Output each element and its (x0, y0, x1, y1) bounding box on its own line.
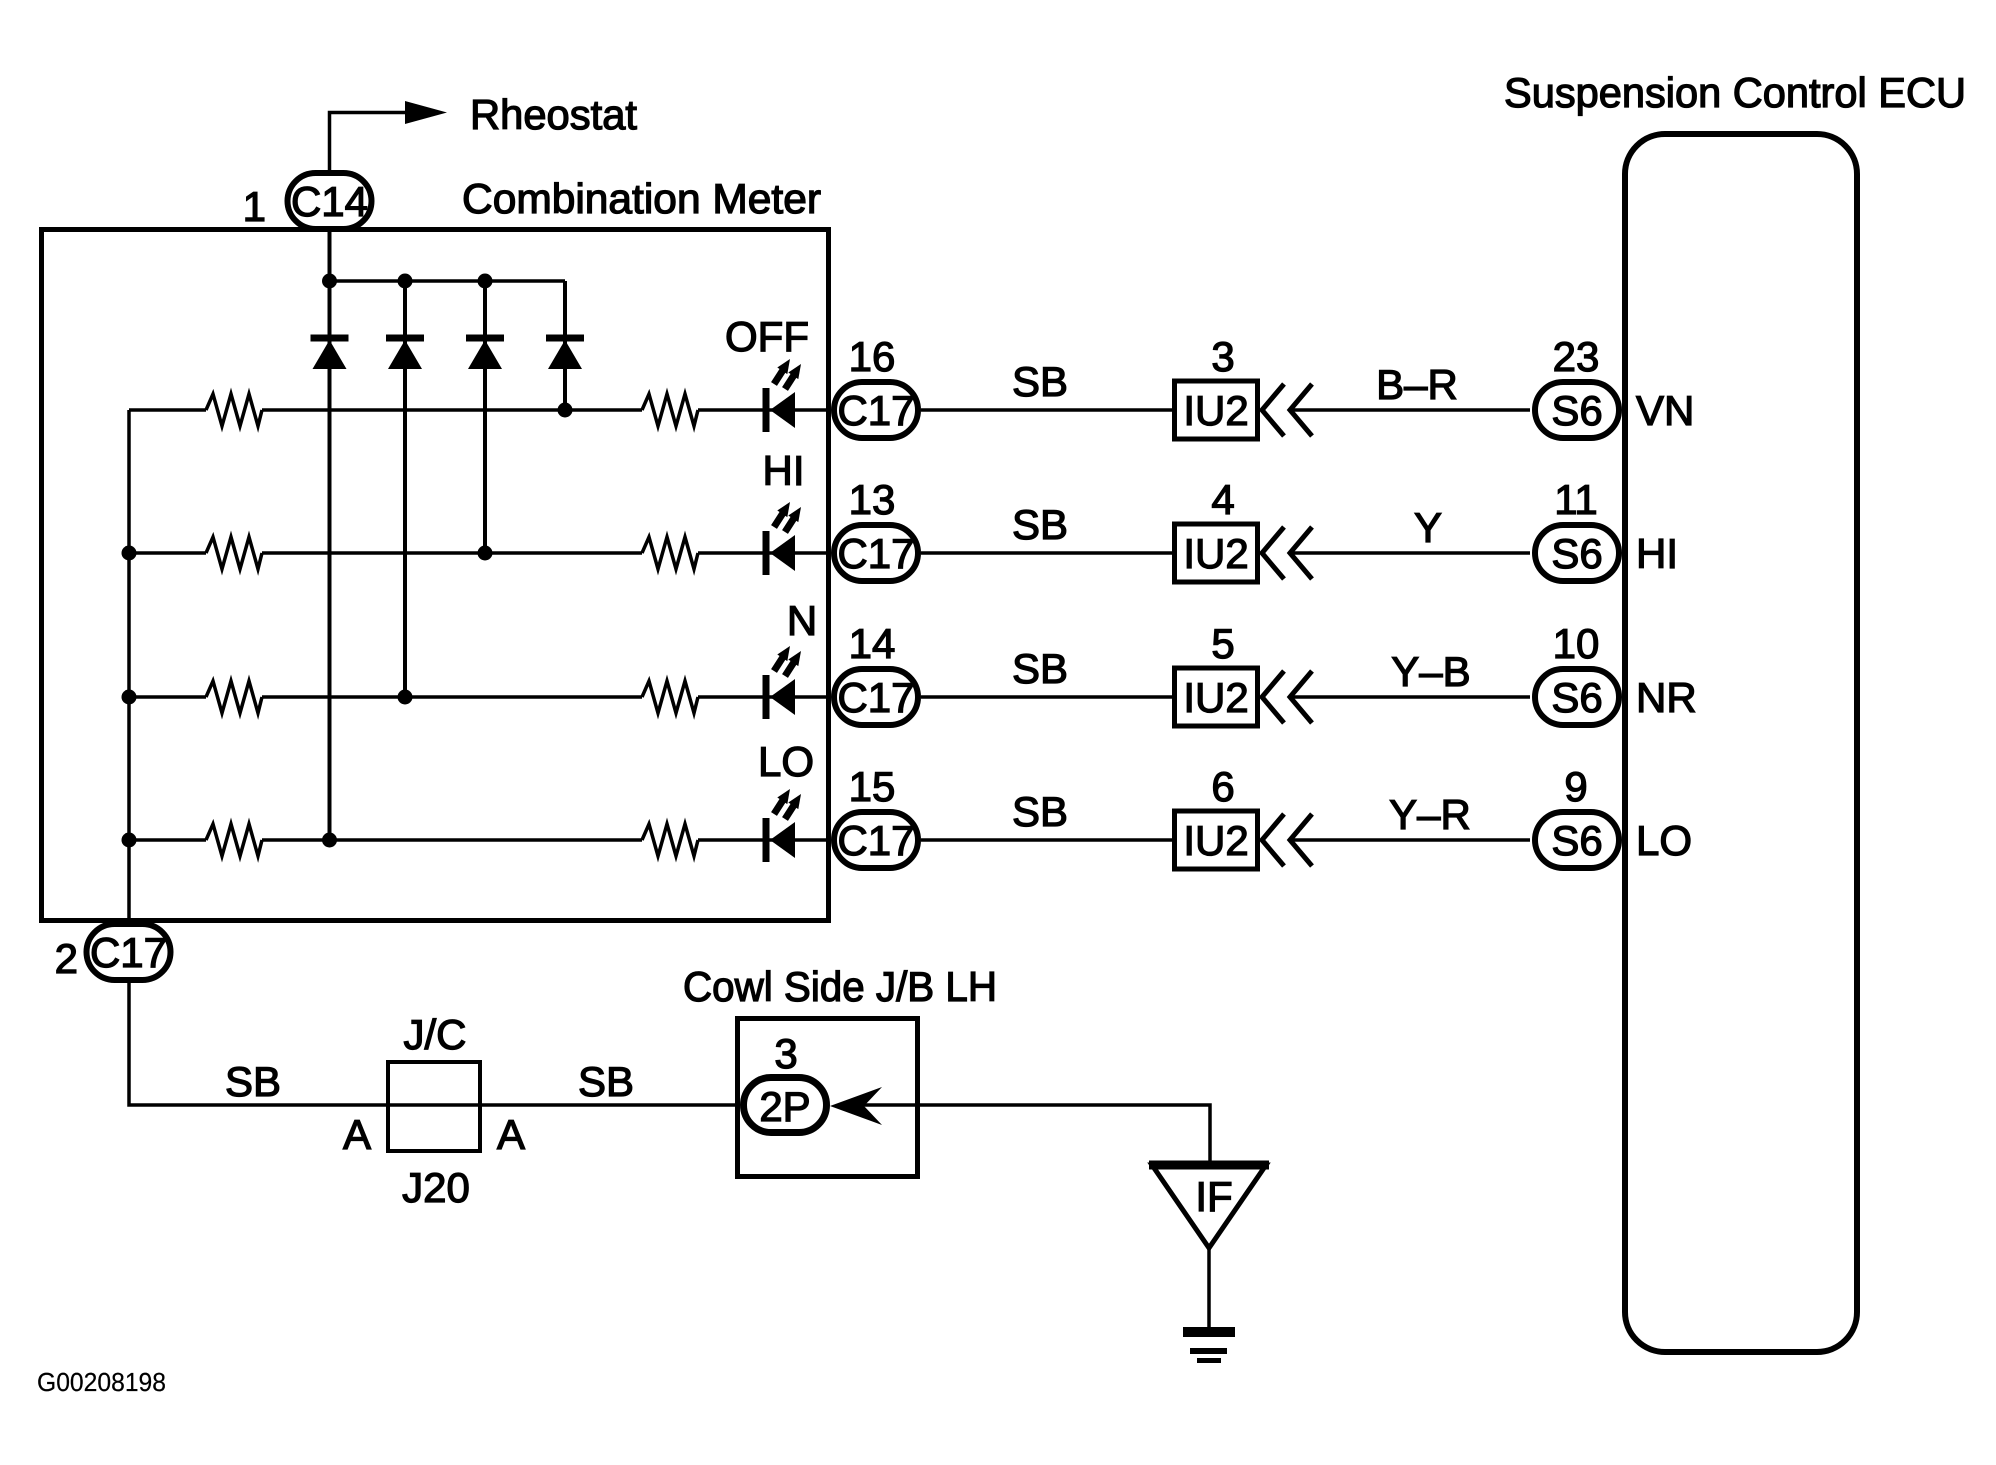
resistor HI-1 (206, 537, 262, 569)
wire C17 to IU2 row4 (921, 838, 1172, 842)
connector 2P (744, 1078, 827, 1133)
combination meter box (42, 230, 829, 921)
wire col3 (483, 281, 487, 553)
wire from C17-2 down and right (129, 983, 735, 1105)
resistor OFF-1 (206, 394, 262, 426)
svg-text:Suspension Control ECU: Suspension Control ECU (1504, 69, 1966, 116)
wire 2P to ground drop (860, 1105, 1210, 1165)
svg-text:C17: C17 (90, 929, 167, 976)
svg-text:2: 2 (55, 935, 78, 982)
svg-text:SB: SB (1012, 788, 1068, 835)
LED N (763, 646, 802, 719)
connector chevrons row3 (1262, 671, 1312, 723)
LED HI (763, 502, 802, 575)
wire N row mid (262, 695, 642, 699)
svg-text:HI: HI (763, 447, 805, 494)
connector S6 pin 10 (1535, 669, 1619, 725)
wire C17 to IU2 row1 (921, 408, 1172, 412)
svg-text:IU2: IU2 (1183, 530, 1248, 577)
svg-text:13: 13 (849, 476, 896, 523)
node col3 HI row (478, 546, 493, 561)
wire LO row left (129, 838, 206, 842)
wire LO row right (698, 838, 831, 842)
svg-text:C17: C17 (837, 387, 914, 434)
svg-text:J/C: J/C (404, 1011, 467, 1058)
svg-text:3: 3 (1211, 333, 1234, 380)
svg-text:Y–B: Y–B (1391, 648, 1470, 695)
svg-text:LO: LO (1636, 817, 1692, 864)
ground triangle IF (1152, 1165, 1266, 1248)
connector chevrons row4 (1262, 814, 1312, 866)
wire IF to ground (1207, 1248, 1211, 1329)
svg-text:9: 9 (1564, 763, 1587, 810)
wire OFF row left (129, 408, 206, 412)
connector S6 pin 23 (1535, 382, 1619, 438)
node col1 LO row (322, 833, 337, 848)
wire N row left (129, 695, 206, 699)
svg-text:IU2: IU2 (1183, 387, 1248, 434)
svg-text:J20: J20 (402, 1164, 470, 1211)
svg-text:S6: S6 (1551, 674, 1602, 721)
wire IU2 to S6 row3 (1292, 695, 1530, 699)
connector C14 (288, 173, 372, 229)
wire LO row mid (262, 838, 642, 842)
junction connector IU2 pin 5 (1175, 668, 1258, 726)
wire OFF row mid (262, 408, 642, 412)
svg-text:C17: C17 (837, 674, 914, 721)
svg-text:4: 4 (1211, 476, 1234, 523)
diode D2 (386, 335, 424, 370)
node bus col2 (398, 274, 413, 289)
LED LO (763, 789, 802, 862)
junction connector IU2 pin 6 (1175, 811, 1258, 869)
wire diode top bus (330, 279, 566, 283)
ground symbol (1183, 1327, 1235, 1363)
svg-text:C17: C17 (837, 817, 914, 864)
junction connector IU2 pin 3 (1175, 381, 1258, 439)
svg-text:SB: SB (225, 1058, 281, 1105)
wire OFF row right (698, 408, 831, 412)
wire IU2 to S6 row1 (1292, 408, 1530, 412)
svg-text:Combination Meter: Combination Meter (462, 175, 821, 222)
svg-text:10: 10 (1553, 620, 1600, 667)
connector C17 pin 14 (834, 669, 918, 725)
svg-text:1: 1 (243, 183, 266, 230)
node left bus LO (122, 833, 137, 848)
node left bus N (122, 690, 137, 705)
svg-text:14: 14 (849, 620, 896, 667)
node bus col3 (478, 274, 493, 289)
wire N row right (698, 695, 831, 699)
wire HI row left (129, 551, 206, 555)
svg-text:IF: IF (1195, 1173, 1232, 1220)
svg-text:A: A (343, 1111, 371, 1158)
svg-text:2P: 2P (759, 1083, 810, 1130)
wire IU2 to S6 row2 (1292, 551, 1530, 555)
wire col4 (563, 281, 567, 410)
cowl side J/B box (738, 1019, 918, 1177)
svg-text:11: 11 (1554, 476, 1598, 523)
svg-text:Y: Y (1414, 504, 1442, 551)
svg-text:NR: NR (1636, 674, 1697, 721)
junction connector IU2 pin 4 (1175, 524, 1258, 582)
wire IU2 to S6 row4 (1292, 838, 1530, 842)
connector C17 pin 13 (834, 525, 918, 581)
svg-text:IU2: IU2 (1183, 674, 1248, 721)
svg-text:VN: VN (1636, 387, 1694, 434)
svg-text:IU2: IU2 (1183, 817, 1248, 864)
connector chevrons row1 (1262, 384, 1312, 436)
resistor LO-2 (642, 824, 698, 856)
wire C14 to diode bus and down col1 (328, 232, 332, 840)
diode D3 (466, 335, 504, 370)
svg-text:Y–R: Y–R (1389, 791, 1471, 838)
wire C17 to IU2 row2 (921, 551, 1172, 555)
node bus col1 (322, 274, 337, 289)
diode D1 (311, 335, 349, 370)
svg-text:S6: S6 (1551, 817, 1602, 864)
node col2 N row (398, 690, 413, 705)
svg-text:N: N (787, 597, 817, 644)
svg-text:LO: LO (758, 738, 814, 785)
svg-text:23: 23 (1553, 333, 1600, 380)
wire left bus (127, 410, 131, 921)
wire HI row mid (262, 551, 642, 555)
male connector arrow (830, 1087, 882, 1125)
svg-text:SB: SB (1012, 358, 1068, 405)
resistor N-2 (642, 681, 698, 713)
svg-text:Cowl Side J/B LH: Cowl Side J/B LH (683, 963, 997, 1010)
diode D4 (546, 335, 584, 370)
svg-text:SB: SB (578, 1058, 634, 1105)
arrowhead to Rheostat (405, 101, 447, 124)
svg-text:15: 15 (849, 763, 896, 810)
wire rheostat feed (330, 113, 408, 171)
connector S6 pin 9 (1535, 812, 1619, 868)
svg-text:G00208198: G00208198 (37, 1367, 166, 1397)
svg-text:C17: C17 (837, 530, 914, 577)
LED OFF (763, 359, 802, 432)
svg-text:SB: SB (1012, 501, 1068, 548)
node col4 OFF row (558, 403, 573, 418)
svg-text:5: 5 (1211, 620, 1234, 667)
connector chevrons row2 (1262, 527, 1312, 579)
svg-text:16: 16 (849, 333, 896, 380)
svg-text:B–R: B–R (1376, 361, 1458, 408)
svg-text:OFF: OFF (725, 313, 809, 360)
wire HI row right (698, 551, 831, 555)
svg-text:SB: SB (1012, 645, 1068, 692)
node left bus HI (122, 546, 137, 561)
svg-text:6: 6 (1211, 763, 1234, 810)
resistor LO-1 (206, 824, 262, 856)
svg-text:C14: C14 (291, 178, 368, 225)
svg-text:A: A (497, 1111, 525, 1158)
svg-text:HI: HI (1636, 530, 1678, 577)
resistor HI-2 (642, 537, 698, 569)
resistor N-1 (206, 681, 262, 713)
connector C17 pin 15 (834, 812, 918, 868)
suspension control ECU box (1625, 134, 1857, 1352)
svg-text:Rheostat: Rheostat (470, 91, 637, 138)
resistor OFF-2 (642, 394, 698, 426)
svg-text:3: 3 (774, 1030, 797, 1077)
connector S6 pin 11 (1535, 525, 1619, 581)
wire C17 to IU2 row3 (921, 695, 1172, 699)
wire col2 (403, 281, 407, 697)
connector C17 pin 16 (834, 382, 918, 438)
svg-text:S6: S6 (1551, 530, 1602, 577)
junction block J20 box (388, 1062, 480, 1151)
svg-text:S6: S6 (1551, 387, 1602, 434)
